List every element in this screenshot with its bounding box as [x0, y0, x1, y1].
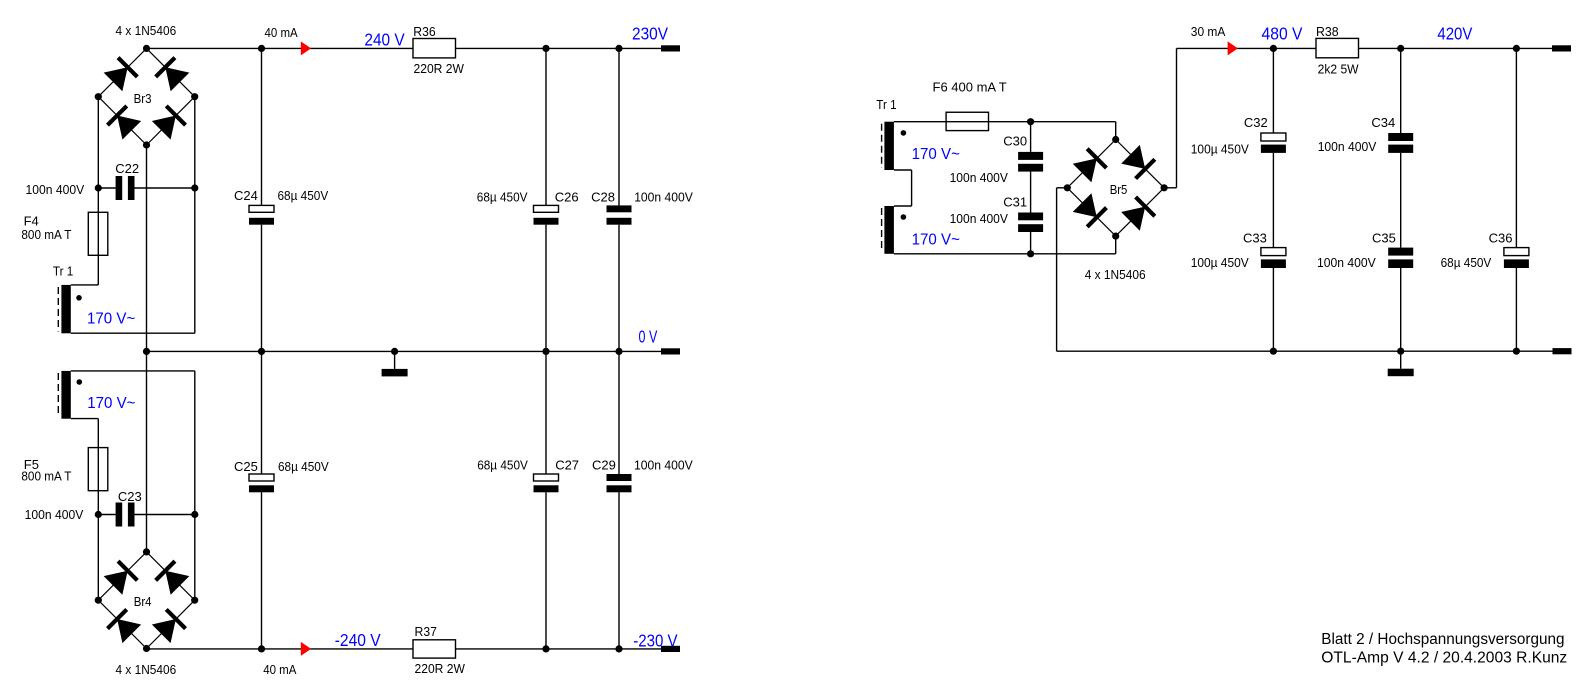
resistor R36	[413, 39, 456, 58]
wire C32 top	[1272, 48, 1274, 133]
svg-text:100n 400V: 100n 400V	[634, 190, 693, 205]
wire C25 top	[261, 351, 263, 474]
svg-text:230V: 230V	[632, 23, 668, 43]
wire -240V rail	[147, 648, 662, 650]
ground	[382, 351, 408, 376]
wire winding 2 top	[71, 370, 195, 372]
svg-text:C32: C32	[1244, 115, 1268, 130]
wire C24 bottom	[261, 225, 263, 352]
svg-text:68µ 450V: 68µ 450V	[477, 190, 528, 205]
wire C28 top	[618, 48, 620, 205]
svg-text:240 V: 240 V	[364, 29, 405, 49]
wire C26 bottom	[545, 225, 547, 352]
node C31 bottom junction	[1027, 250, 1034, 257]
terminal 0 V	[661, 348, 680, 354]
wire Br3 right leg	[194, 97, 196, 334]
transformer winding 4	[884, 206, 894, 254]
fuse F6	[946, 112, 988, 130]
node 0V C28 junction	[615, 348, 622, 355]
capacitor C34	[1388, 133, 1413, 153]
wire C34-C35 link	[1400, 153, 1402, 248]
svg-text:68µ 450V: 68µ 450V	[278, 188, 329, 203]
svg-text:220R 2W: 220R 2W	[415, 661, 466, 676]
capacitor C23	[116, 503, 135, 527]
svg-text:2k2 5W: 2k2 5W	[1318, 61, 1360, 76]
svg-text:C26: C26	[555, 190, 579, 205]
svg-text:C29: C29	[592, 458, 616, 473]
svg-text:100µ 450V: 100µ 450V	[1191, 255, 1249, 270]
wire C33 bottom	[1272, 268, 1274, 351]
wire C31 bottom	[1030, 232, 1032, 254]
wire Br5 right to 480V rail	[1164, 48, 1176, 187]
wire C23 right	[135, 514, 195, 516]
svg-text:C23: C23	[118, 489, 142, 504]
svg-text:170 V~: 170 V~	[87, 395, 135, 412]
svg-text:170 V~: 170 V~	[912, 146, 960, 163]
phase dot winding 2	[77, 379, 83, 385]
svg-text:30 mA: 30 mA	[1191, 24, 1226, 39]
wire C29 bottom	[618, 492, 620, 649]
svg-text:R37: R37	[415, 624, 437, 639]
svg-text:100n 400V: 100n 400V	[950, 211, 1009, 226]
wire Br5 left to 0V	[1057, 188, 1068, 351]
wire F6 to Br5 top	[989, 122, 1116, 140]
capacitor C31	[1018, 213, 1043, 233]
wire winding 3 to F6	[894, 121, 946, 123]
node -240V C29 junction	[615, 645, 622, 652]
node -240V C25 junction	[258, 645, 265, 652]
wire C36 top	[1515, 48, 1517, 247]
svg-text:Tr 1: Tr 1	[53, 264, 73, 279]
wire C22 left	[98, 187, 115, 189]
resistor R37	[413, 640, 456, 658]
wire 480V rail	[1177, 47, 1553, 49]
svg-text:420V: 420V	[1437, 24, 1472, 44]
wire C26 top	[545, 48, 547, 205]
svg-text:Br5: Br5	[1110, 182, 1128, 197]
capacitor C24	[249, 205, 274, 224]
transformer winding 2 core dash	[57, 373, 59, 417]
svg-text:220R 2W: 220R 2W	[414, 61, 465, 76]
node 420V C36 junction	[1513, 45, 1520, 52]
svg-text:Blatt 2 / Hochspannungsversorg: Blatt 2 / Hochspannungsversorgung	[1321, 631, 1564, 648]
capacitor C25	[249, 474, 274, 492]
transformer winding 4 core dash	[881, 208, 883, 252]
svg-text:0 V: 0 V	[639, 326, 658, 346]
svg-text:100n 400V: 100n 400V	[634, 458, 693, 473]
node 0V C24 junction	[258, 348, 265, 355]
capacitor C36	[1504, 248, 1529, 268]
capacitor C29	[607, 474, 632, 492]
terminal 230V	[661, 45, 680, 51]
svg-text:100n 400V: 100n 400V	[26, 182, 85, 197]
capacitor C35	[1388, 248, 1413, 268]
node C22 left	[95, 184, 102, 191]
current arrow 40 mA (top)	[301, 41, 311, 55]
transformer winding 3 core dash	[881, 124, 883, 168]
node right rail C36 junction	[1513, 348, 1520, 355]
svg-text:4 x 1N5406: 4 x 1N5406	[116, 662, 177, 677]
transformer winding 2	[61, 371, 70, 419]
wire C28 bottom	[618, 225, 620, 352]
node 480V C32 junction	[1270, 45, 1277, 52]
phase dot winding 3	[901, 130, 907, 136]
node +240V C28 junction	[615, 45, 622, 52]
svg-text:C34: C34	[1371, 115, 1395, 130]
svg-text:C35: C35	[1372, 230, 1396, 245]
svg-text:Br4: Br4	[134, 594, 152, 609]
wire C27 bottom	[545, 492, 547, 649]
ground (right)	[1388, 351, 1414, 376]
wire C30-C31 link	[1030, 172, 1032, 213]
phase dot winding 4	[901, 214, 907, 220]
winding series link	[894, 170, 912, 206]
svg-text:F6 400 mA T: F6 400 mA T	[933, 79, 1007, 94]
svg-text:C25: C25	[234, 459, 258, 474]
svg-text:4 x 1N5406: 4 x 1N5406	[116, 23, 177, 38]
wire C36 bottom	[1515, 268, 1517, 351]
transformer winding 1 core dash	[57, 287, 59, 332]
svg-text:4 x 1N5406: 4 x 1N5406	[1085, 267, 1146, 282]
wire C34 top	[1400, 48, 1402, 133]
node +240V C24 junction	[258, 45, 265, 52]
svg-text:C24: C24	[234, 188, 258, 203]
svg-text:C22: C22	[115, 161, 139, 176]
svg-text:68µ 450V: 68µ 450V	[477, 458, 528, 473]
wire C24 top	[261, 48, 263, 205]
svg-text:40 mA: 40 mA	[265, 25, 298, 40]
svg-text:C36: C36	[1489, 230, 1513, 245]
bridge rectifier Br3	[95, 45, 199, 149]
svg-text:100n 400V: 100n 400V	[1318, 139, 1377, 154]
bridge rectifier Br4	[95, 548, 199, 652]
svg-text:R36: R36	[413, 24, 435, 39]
node C23 right	[191, 511, 198, 518]
wire 0V rail	[147, 350, 662, 352]
capacitor C33	[1261, 248, 1286, 268]
node 0V ground junction	[391, 348, 398, 355]
wire XR to C23	[194, 371, 196, 515]
svg-text:OTL-Amp V 4.2 / 20.4.2003 R.Ku: OTL-Amp V 4.2 / 20.4.2003 R.Kunz	[1321, 650, 1567, 667]
wire C27 top	[545, 351, 547, 474]
wire C29 top	[618, 351, 620, 474]
wire to winding 1 top	[71, 284, 99, 286]
svg-text:100n 400V: 100n 400V	[1317, 255, 1376, 270]
node 0V mid junction	[143, 348, 150, 355]
wire F5 leg	[97, 419, 99, 515]
node 0V C26 junction	[542, 348, 549, 355]
svg-text:C33: C33	[1243, 230, 1267, 245]
wire winding 4 to Br5 bottom	[894, 236, 1116, 254]
node C30 top junction	[1027, 118, 1034, 125]
node right rail C33 junction	[1270, 348, 1277, 355]
wire Br4 right leg	[194, 515, 196, 601]
wire C23 left	[98, 514, 115, 516]
svg-text:170 V~: 170 V~	[87, 311, 135, 328]
current arrow 30 mA	[1228, 41, 1238, 55]
node C22 right	[191, 184, 198, 191]
node +240V C26 junction	[542, 45, 549, 52]
wire C22 right	[135, 187, 195, 189]
capacitor C30	[1018, 152, 1043, 172]
terminal right rail	[1553, 348, 1572, 354]
svg-text:68µ 450V: 68µ 450V	[1441, 255, 1492, 270]
wire F4 leg	[97, 188, 99, 285]
svg-text:800 mA T: 800 mA T	[21, 468, 71, 483]
current arrow 40 mA (bottom)	[301, 642, 311, 656]
svg-text:C30: C30	[1003, 134, 1027, 149]
transformer winding 3	[884, 122, 894, 170]
capacitor C27	[534, 474, 559, 492]
svg-text:170 V~: 170 V~	[912, 231, 960, 248]
svg-text:480 V: 480 V	[1262, 24, 1303, 44]
capacitor C28	[607, 205, 632, 224]
wire Br3 left leg	[97, 97, 99, 188]
wire C35 bottom	[1400, 268, 1402, 351]
capacitor C22	[116, 176, 135, 200]
fuse F4	[88, 212, 108, 255]
svg-text:Tr 1: Tr 1	[876, 97, 896, 112]
wire winding 2 bottom	[71, 418, 99, 420]
wire 0V to Br4 top	[146, 351, 148, 552]
node C23 left	[95, 511, 102, 518]
svg-text:C28: C28	[591, 190, 615, 205]
svg-text:100µ 450V: 100µ 450V	[1191, 141, 1249, 156]
svg-text:C27: C27	[555, 458, 579, 473]
fuse F5	[88, 448, 108, 491]
svg-text:68µ 450V: 68µ 450V	[278, 459, 329, 474]
wire Br4 left leg	[97, 515, 99, 601]
node -240V C27 junction	[542, 645, 549, 652]
svg-text:Br3: Br3	[134, 91, 152, 106]
svg-text:800 mA T: 800 mA T	[21, 227, 71, 242]
svg-text:R38: R38	[1316, 24, 1339, 39]
node right rail C35 junction	[1397, 348, 1404, 355]
wire Br3 bottom to 0V	[146, 145, 148, 351]
node 420V C34 junction	[1397, 45, 1404, 52]
capacitor C32	[1261, 133, 1286, 153]
transformer winding 1	[61, 285, 70, 333]
wire +240V rail	[147, 47, 662, 49]
wire right 0V rail	[1057, 350, 1553, 352]
terminal 420V	[1552, 45, 1571, 51]
wire C32-C33 link	[1272, 153, 1274, 248]
svg-text:40 mA: 40 mA	[263, 662, 296, 677]
svg-text:100n 400V: 100n 400V	[25, 507, 84, 522]
resistor R38	[1316, 38, 1359, 57]
capacitor C26	[534, 205, 559, 224]
wire C25 bottom	[261, 492, 263, 649]
svg-text:100n 400V: 100n 400V	[950, 170, 1009, 185]
terminal -230 V	[661, 646, 680, 652]
svg-text:C31: C31	[1003, 195, 1027, 210]
bridge rectifier Br5	[1064, 136, 1168, 240]
wire winding 1 bottom	[71, 332, 195, 334]
wire C30 top	[1030, 122, 1032, 152]
phase dot winding 1	[76, 295, 82, 301]
svg-text:-240 V: -240 V	[335, 630, 381, 650]
